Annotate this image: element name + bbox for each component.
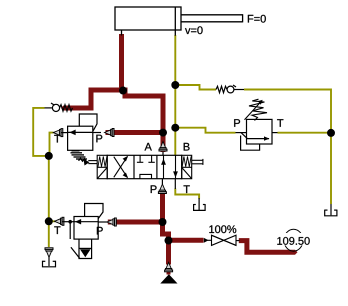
pilot box on top xyxy=(79,114,97,131)
label F=0 xyxy=(248,15,266,23)
node: left column lower xyxy=(45,217,53,225)
check valve left (spring loaded) xyxy=(45,103,73,112)
node: junction under cylinder xyxy=(119,87,127,95)
pressure relief valve (right) body xyxy=(236,119,278,150)
label T of counterbalance valve xyxy=(54,135,60,143)
wire: right to A column xyxy=(121,90,163,152)
wire: olive branch to right relief valve P xyxy=(175,128,235,133)
label T (directional valve) xyxy=(184,185,190,193)
wire: olive from right relief valve T to right column xyxy=(278,132,332,134)
arrow left at counterbalance T xyxy=(53,129,63,137)
arrow inside counterbalance valve xyxy=(70,130,76,135)
label T (relief valve) xyxy=(277,119,283,127)
right stub with bar xyxy=(192,159,203,161)
wire: cylinder piston-side down xyxy=(119,34,124,90)
arrow up at P port xyxy=(158,184,166,194)
drain funnel below reducing valve xyxy=(71,239,92,258)
label P of counterbalance valve xyxy=(96,135,102,143)
wire: to throttle xyxy=(169,238,204,243)
label B xyxy=(184,143,190,151)
node: A line x relief P xyxy=(159,129,167,137)
wire: P column down to pump xyxy=(163,194,169,265)
ellipse marker around measured value xyxy=(284,229,303,251)
label P of reducing valve xyxy=(97,227,103,235)
node: P column x bottom valve P xyxy=(159,218,167,226)
arrow down at bottom-left tank xyxy=(45,248,53,258)
wire: bottom valve P to P column xyxy=(108,220,163,225)
wire: olive branch to right check valve xyxy=(175,85,216,90)
wire: relief P to A column xyxy=(106,130,164,135)
throttle valve 100% xyxy=(212,235,237,245)
label P (relief valve) xyxy=(234,119,240,127)
adjustable spring above relief valve xyxy=(245,99,268,120)
node: olive rod line x relief branch xyxy=(171,124,179,132)
counterbalance valve (left middle) body xyxy=(68,114,97,150)
tank (bottom left) xyxy=(43,257,56,267)
label T of reducing valve xyxy=(54,226,60,234)
right end: spring + solenoid xyxy=(182,155,203,178)
label v=0 xyxy=(185,26,203,34)
mechanical link to directional valve xyxy=(88,161,97,164)
node: olive rod line x check branch xyxy=(171,81,179,89)
node: right column x relief T xyxy=(327,129,335,137)
arrow up at A port xyxy=(159,142,167,152)
pilot line left side xyxy=(69,222,71,239)
left position: crossed arrows xyxy=(114,157,128,178)
wire: black stubs at valve T/P ports xyxy=(61,133,199,223)
right position: parallel arrows (active) xyxy=(164,155,176,178)
wire: olive left pilot column xyxy=(33,108,49,156)
wire: olive cylinder rod-side line down to valve port B xyxy=(33,35,331,247)
node: left column upper xyxy=(45,152,53,160)
pressure reducing valve (bottom left) body xyxy=(70,204,103,240)
middle position: blocked ports xyxy=(137,155,155,178)
arrow up at pump xyxy=(165,262,173,272)
node: P column x throttle branch xyxy=(165,237,173,245)
label 109.50 xyxy=(277,237,309,245)
wire: after throttle to plugged end 109.50 xyxy=(239,241,295,253)
arrow left at counterbalance P xyxy=(105,129,115,137)
label 100% xyxy=(209,225,236,233)
wire: olive from directional valve T to top tank xyxy=(175,189,199,199)
arrow left at reducing valve P xyxy=(107,218,117,226)
directional valve 4/3 body xyxy=(107,155,182,178)
wire: black stubs at directional valve ports xyxy=(162,152,175,189)
arrow left at reducing valve T xyxy=(54,217,64,225)
label P (directional valve) xyxy=(151,185,157,193)
tank (top middle, at directional valve T) xyxy=(194,204,206,210)
left end: spring + solenoid xyxy=(97,155,107,178)
cylinder (double-acting, v=0) xyxy=(115,7,243,36)
wire: maroon taper tips xyxy=(61,106,298,255)
tank (right) xyxy=(325,204,337,216)
pilot loop xyxy=(241,136,260,151)
label A xyxy=(145,143,152,151)
flow arrows (gray plugs) xyxy=(45,129,173,272)
arrow inside reducing valve xyxy=(75,219,81,224)
wire: left to check valve xyxy=(64,90,126,108)
pump / pressure source triangle xyxy=(160,274,177,283)
spring below counterbalance valve (adjustable) xyxy=(71,151,88,162)
check valve right (spring loaded) xyxy=(216,85,244,93)
wire: maroon pressure lines xyxy=(64,34,296,265)
pilot box on top xyxy=(85,204,103,219)
